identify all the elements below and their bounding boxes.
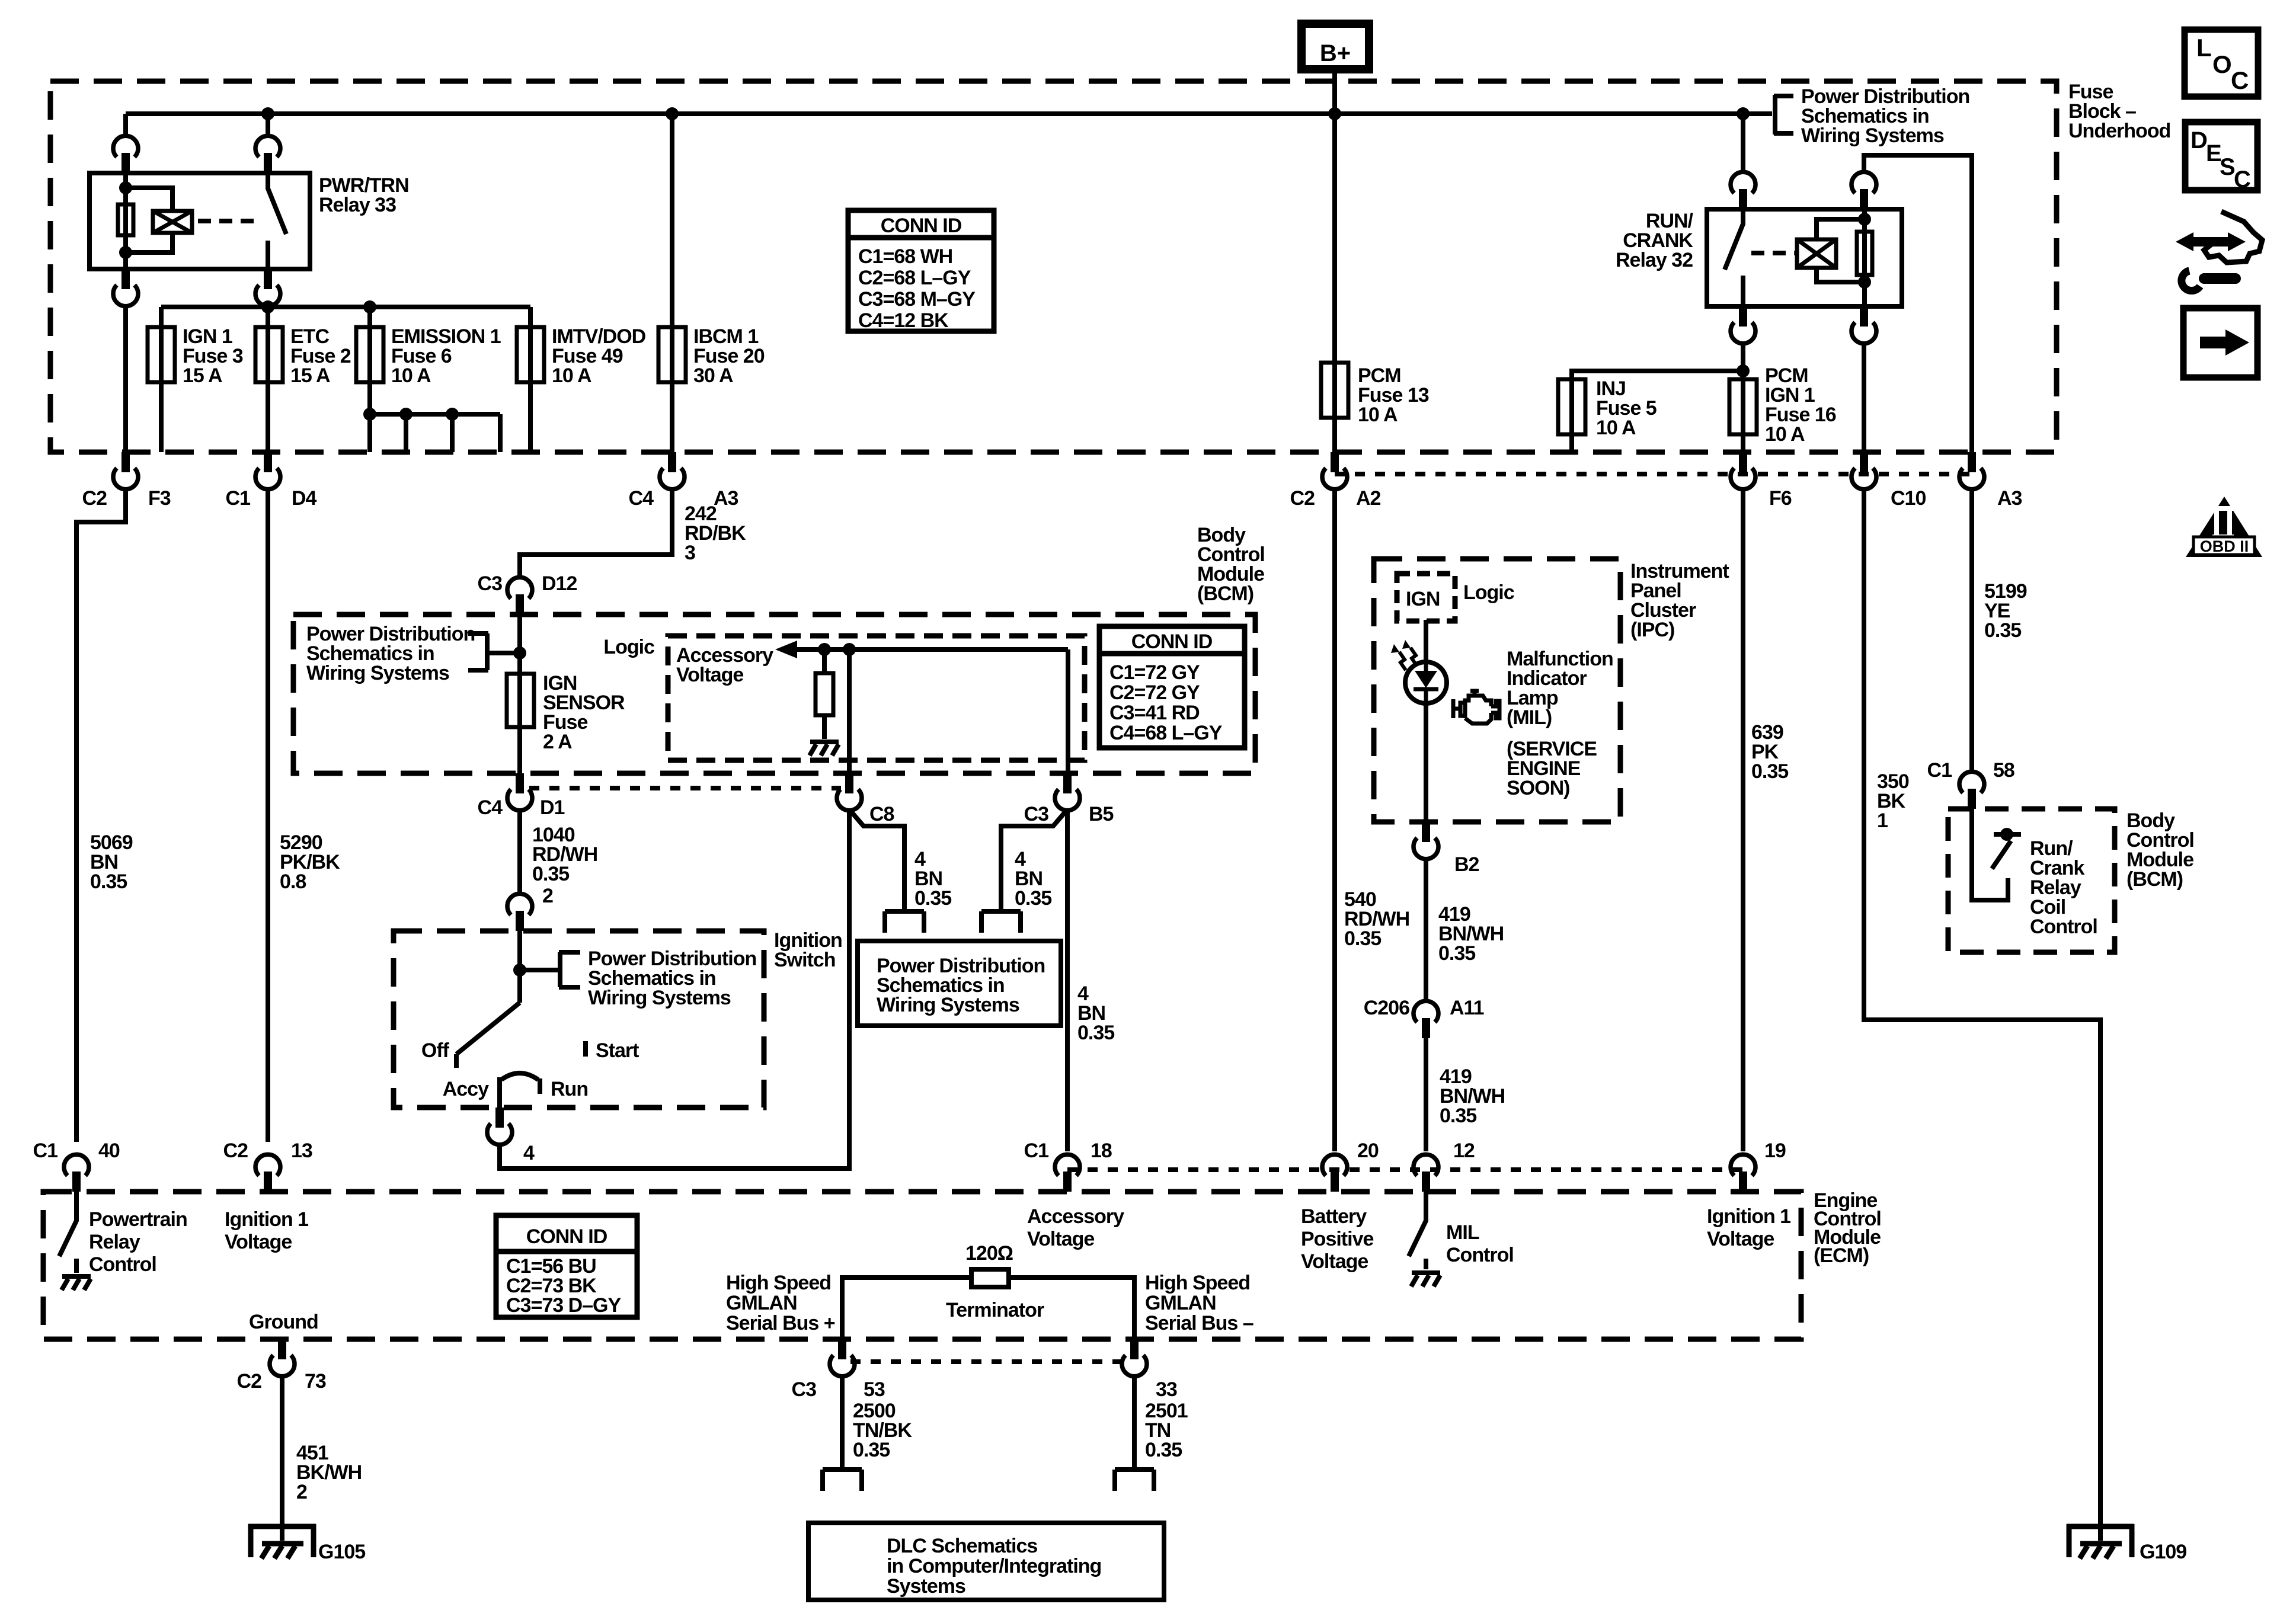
wire 5069 BN (F3 to ECM C1/40) [76, 488, 126, 1142]
svg-text:BatteryPositiveVoltage: BatteryPositiveVoltage [1301, 1205, 1373, 1273]
ground (BCM internal) [810, 742, 839, 756]
fuse EMISSION 1 Fuse 6 [356, 327, 383, 382]
connector C10 [1851, 452, 1876, 489]
svg-text:A11: A11 [1450, 997, 1484, 1019]
fuse PCM IGN 1 Fuse 16 [1729, 379, 1757, 434]
svg-text:OBD II: OBD II [2200, 537, 2249, 555]
module IPC dashed box [1374, 559, 1620, 822]
node fork to DLC (right) [1115, 1470, 1154, 1491]
svg-text:4: 4 [523, 1142, 535, 1164]
relay PWR/TRN box [89, 173, 310, 269]
icon LOC box [2185, 30, 2258, 97]
node bracket Power Distribution (ignition switch) [520, 952, 580, 987]
icon vehicle with arrow [2176, 212, 2262, 263]
svg-text:2: 2 [542, 885, 553, 907]
svg-text:Logic: Logic [1463, 581, 1514, 604]
connector C1/18 [1055, 1154, 1080, 1192]
icon arrow box [2183, 308, 2257, 377]
wire dashed mech link [1751, 251, 1795, 255]
wire C8 drop inside BCM [847, 649, 852, 773]
node B+ terminal [1302, 24, 1369, 69]
svg-text:C: C [2231, 66, 2249, 94]
svg-text:C3: C3 [792, 1378, 817, 1401]
wire parallel branch [126, 188, 172, 252]
wire relay outputs [126, 305, 268, 452]
connector C4/D1 [507, 773, 532, 811]
connector C3/B5 [1055, 773, 1080, 811]
svg-text:C1: C1 [1927, 759, 1952, 782]
svg-text:20: 20 [1357, 1140, 1379, 1162]
icon DESC box [2185, 122, 2257, 193]
connector 19 [1731, 1154, 1755, 1192]
wire 451 BK/WH [280, 1375, 284, 1541]
node CONN ID table (fuse block) [848, 210, 994, 332]
connector B2 [1414, 822, 1438, 859]
wire B5 branch to power distribution box [1001, 809, 1067, 911]
svg-text:18: 18 [1091, 1140, 1112, 1162]
wire 419 BN/WH lower [1424, 1038, 1428, 1151]
svg-text:C8: C8 [869, 803, 894, 825]
wire dotted DLC connector line [850, 1359, 1126, 1364]
connector C2/13 [255, 1154, 280, 1192]
svg-text:C10: C10 [1891, 487, 1926, 510]
connector 20 [1322, 1154, 1347, 1192]
wire 639 PK (F6 to ECM 19) [1741, 488, 1745, 1151]
junction relay32 coil bottom [1858, 276, 1871, 289]
junction ignition switch feed [513, 964, 526, 977]
connector C2/F3 [113, 452, 138, 489]
svg-text:12: 12 [1453, 1140, 1475, 1162]
svg-text:Ground: Ground [249, 1311, 318, 1333]
svg-text:F6: F6 [1769, 487, 1792, 510]
node Start contact [583, 1041, 588, 1057]
module Fuse Block - Underhood dashed box [50, 81, 2057, 452]
svg-text:IgnitionSwitch: IgnitionSwitch [774, 929, 842, 971]
resistor (relay 32) [1862, 209, 1867, 306]
connector C3/D12 [507, 577, 532, 614]
module BCM2 dashed box [1948, 809, 2115, 952]
wire dotted ECM top connector line [1067, 1167, 1743, 1172]
junction run/crank driver node [2000, 828, 2013, 841]
node accessory voltage arrow [775, 641, 797, 658]
svg-text:G109: G109 [2140, 1541, 2186, 1563]
wire bus to relay pins [126, 114, 268, 136]
connector terminal 4 [487, 1108, 512, 1145]
svg-text:53: 53 [864, 1378, 885, 1401]
connector pin 212 top [113, 136, 138, 173]
node fork to DLC (left) [823, 1470, 862, 1491]
connector C1/58 [1959, 772, 1984, 809]
resistor (BCM pull-down) [822, 649, 827, 739]
node run/crank relay coil control driver [1972, 809, 2008, 900]
module ignition switch dashed box [394, 931, 764, 1108]
connector C1/D4 [255, 452, 280, 489]
fuse PCM Fuse 13 feed wire [1332, 114, 1337, 452]
svg-text:A3: A3 [714, 487, 738, 510]
wire C8 to ignition switch terminal 4 [500, 809, 849, 1169]
fuse IGN 1 Fuse 3 [148, 327, 175, 382]
wire dashed mech link [198, 219, 260, 223]
svg-text:PWR/TRNRelay 33: PWR/TRNRelay 33 [319, 174, 409, 216]
svg-text:O: O [2212, 50, 2232, 78]
svg-text:Accy: Accy [443, 1078, 489, 1100]
svg-text:CONN ID: CONN ID [1131, 630, 1213, 653]
junction emission branch 1 [363, 408, 376, 421]
connector terminal 2 [507, 894, 532, 931]
junction bus/IBCM1 [666, 107, 679, 120]
junction bus/RUN-CRANK relay [1737, 107, 1750, 120]
svg-text:13: 13 [291, 1140, 312, 1162]
svg-text:C3: C3 [1024, 803, 1049, 825]
coil (relay 33) [153, 211, 192, 233]
svg-text:Start: Start [596, 1039, 639, 1062]
connector C2/A2 [1322, 452, 1347, 489]
wire B5 drop inside BCM [1066, 649, 1070, 773]
connector C4/A3 [660, 452, 685, 489]
svg-text:S: S [2220, 154, 2236, 180]
module Logic inner dashed box [668, 636, 1085, 760]
svg-text:Off: Off [421, 1039, 450, 1062]
svg-text:IGN: IGN [1406, 588, 1440, 610]
node MIL control driver [1409, 1192, 1426, 1269]
connector C8 [837, 773, 862, 811]
wire sub bus [161, 305, 530, 309]
svg-text:C206: C206 [1364, 997, 1409, 1019]
ground G105 [248, 1524, 316, 1558]
lamp MIL LED [1391, 640, 1447, 703]
wire main bus [126, 111, 1772, 116]
connector 33 [1122, 1339, 1147, 1377]
wire emission sub-branch [370, 414, 500, 452]
wire 419 BN/WH upper [1424, 858, 1428, 1001]
wire coil side [123, 173, 128, 269]
icon wrench [2182, 271, 2236, 291]
svg-text:Terminator: Terminator [946, 1299, 1044, 1321]
wire B5 to ECM C1/18 (4 BN 0.35) [1065, 809, 1070, 1151]
svg-text:D4: D4 [292, 487, 317, 510]
connector F6 [1731, 452, 1755, 489]
junction IGN SENSOR feed [513, 646, 526, 660]
node bracket to Power Distribution (top right) [1774, 95, 1793, 135]
svg-text:C2: C2 [1290, 487, 1315, 510]
wire 1040 RD/WH [517, 809, 522, 894]
svg-text:CONN ID: CONN ID [526, 1225, 607, 1248]
svg-text:C: C [2234, 167, 2251, 193]
svg-text:C1: C1 [1024, 1140, 1049, 1162]
node IGN logic box [1397, 574, 1455, 621]
svg-text:A2: A2 [1356, 487, 1381, 510]
wire through BCM [517, 614, 522, 773]
node terminator loop [842, 1278, 1134, 1340]
svg-text:C4: C4 [478, 796, 503, 819]
svg-text:A3: A3 [1997, 487, 2022, 510]
junction relay32 coil top [1858, 213, 1871, 226]
svg-text:58: 58 [1993, 759, 2014, 782]
resistor (relay 33) [118, 204, 133, 235]
node powertrain relay control driver [59, 1192, 76, 1273]
svg-text:73: 73 [305, 1370, 326, 1393]
wire 242 RD/BK (A3 to BCM C3/D12) [520, 488, 672, 578]
wire 5199 YE (A3 to BCM C1/58) [1969, 488, 1974, 772]
wire 2500 TN/BK [840, 1375, 845, 1470]
module ECM dashed box [43, 1192, 1801, 1339]
svg-text:C2: C2 [223, 1140, 248, 1162]
fuse ETC Fuse 2 [255, 327, 283, 382]
switch (relay 33) [268, 173, 286, 269]
svg-text:B5: B5 [1089, 803, 1114, 825]
svg-text:CONN ID: CONN ID [881, 215, 962, 237]
connector relay 32 bottoms [1731, 306, 1755, 344]
svg-text:F3: F3 [148, 487, 171, 510]
fuse INJ Fuse 5 [1558, 379, 1585, 434]
connector C3/53 [830, 1339, 855, 1377]
node CONN ID table (BCM) [1099, 626, 1245, 748]
fuse IMTV/DOD Fuse 49 [517, 327, 544, 382]
wire loop to A3 [1864, 155, 1972, 452]
connector pin 452 bottom [255, 269, 280, 306]
wire 540 RD/WH (A2 to ECM 20) [1332, 488, 1337, 1151]
wire dotted connector line [1335, 472, 1972, 476]
svg-text:B2: B2 [1454, 853, 1479, 876]
connector pin 212 bottom [113, 269, 138, 306]
svg-text:B+: B+ [1320, 40, 1351, 66]
wire 5290 PK/BK (D4 to ECM C2/13) [266, 488, 270, 1142]
switch (relay 32) [1725, 209, 1743, 306]
connector C1/40 [64, 1154, 89, 1192]
node Accy contact and wiper [500, 1073, 540, 1108]
icon OBD II triangle [2186, 497, 2262, 557]
coil (relay 32) [1817, 219, 1865, 282]
svg-text:C1: C1 [33, 1140, 58, 1162]
connector C206/A11 [1414, 1001, 1438, 1038]
module BCM dashed box [293, 614, 1255, 773]
junction bus/ETC-relay [261, 107, 274, 120]
svg-text:L: L [2196, 34, 2212, 62]
svg-text:33: 33 [1156, 1378, 1177, 1401]
wire 2501 TN [1132, 1375, 1137, 1470]
node fork to power distribution box (right) [981, 911, 1021, 933]
resistor terminator 120 ohm [971, 1269, 1009, 1287]
node fork to power distribution box (left) [885, 911, 924, 933]
svg-text:Logic: Logic [603, 636, 654, 658]
junction accessory/C8 [843, 643, 856, 656]
svg-text:120Ω: 120Ω [965, 1242, 1013, 1265]
svg-text:G105: G105 [318, 1541, 365, 1563]
svg-text:C4: C4 [629, 487, 654, 510]
svg-text:C3: C3 [478, 572, 503, 595]
svg-text:D1: D1 [540, 796, 565, 819]
junction emission branch 2 [399, 408, 412, 421]
ground G109 [2067, 1524, 2134, 1558]
connector A3 right [1959, 452, 1984, 489]
node CONN ID table (ECM) [496, 1215, 637, 1317]
fuse IGN SENSOR 2A [507, 674, 534, 727]
svg-text:Run: Run [551, 1078, 588, 1100]
svg-text:C1: C1 [226, 487, 251, 510]
wire fuse drops [161, 114, 672, 452]
wire IGN to MIL lamp [1424, 620, 1428, 822]
svg-text:D: D [2191, 127, 2208, 153]
junction emission branch 3 [446, 408, 459, 421]
relay RUN/CRANK Relay 32 section [1741, 114, 1745, 172]
junction sub-bus/EMISSION fuse [363, 300, 376, 313]
junction relay33 coil bottom [119, 246, 132, 259]
wire B+ to bus [1332, 69, 1337, 116]
junction relay32 output/INJ fuse [1737, 364, 1750, 377]
connector 12 [1414, 1154, 1438, 1192]
connector C2/73 [270, 1339, 295, 1377]
svg-text:40: 40 [98, 1140, 120, 1162]
wire dotted connector line [529, 786, 841, 790]
junction sub-bus/relay output [261, 300, 274, 313]
wire 350 BK (C10 to G109) [1864, 488, 2100, 1541]
svg-text:C2: C2 [82, 487, 107, 510]
node DLC schematics box [808, 1523, 1164, 1600]
junction accessory/resistor [818, 643, 831, 656]
svg-text:C2: C2 [237, 1370, 262, 1393]
fuse IBCM 1 Fuse 20 [658, 327, 686, 382]
svg-text:19: 19 [1764, 1140, 1786, 1162]
svg-text:D12: D12 [542, 572, 577, 595]
node power distribution solid box [858, 941, 1061, 1026]
wire switch feed [517, 931, 522, 1003]
icon engine (MIL) [1453, 691, 1499, 724]
wire INJ branch [1572, 371, 1743, 452]
switch blade to Off [456, 1003, 520, 1068]
connector pin 452 top [255, 136, 280, 173]
junction relay33 coil top [119, 181, 132, 194]
wire C8 branch to power distribution (4 BN 0.35) [849, 809, 904, 911]
junction bus/B+ [1328, 107, 1341, 120]
